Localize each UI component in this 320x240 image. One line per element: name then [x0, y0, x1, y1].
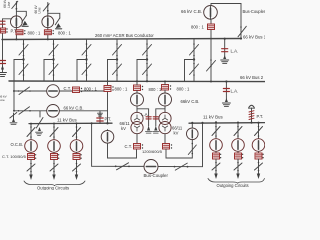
circuit breaker CB incoming 2 — [42, 16, 54, 28]
label 66/11 kV (right) — [172, 126, 183, 136]
transformer T1 66/11 kV — [131, 112, 143, 143]
svg-text:L.A.: L.A. — [231, 48, 239, 53]
bus link bay 4 — [108, 39, 122, 81]
svg-text:66 kV Bus 2: 66 kV Bus 2 — [240, 75, 264, 80]
label 1200/600/5 — [142, 149, 163, 154]
svg-text:P.T.: P.T. — [257, 114, 264, 119]
circuit breaker 11 kV (left transformer) — [101, 130, 114, 144]
svg-text:11 kV Bus: 11 kV Bus — [203, 114, 223, 119]
svg-text:800 : 1: 800 : 1 — [177, 86, 190, 91]
svg-text:11 kV Bus: 11 kV Bus — [57, 117, 77, 122]
CT 800:1 incoming 1 — [16, 30, 25, 35]
lightning arrester pair between transformers — [137, 109, 165, 133]
transformer T2 66/11 kV — [159, 112, 171, 143]
svg-text:kV: kV — [174, 130, 179, 135]
circuit breaker (transformer 2 primary) — [159, 93, 172, 106]
label 66 kV C.B. (run2) — [64, 106, 84, 111]
wire transformer1 secondary loop — [108, 143, 137, 158]
svg-text:800 : 1: 800 : 1 — [191, 25, 204, 30]
svg-text:C.T.: C.T. — [64, 86, 71, 91]
svg-text:800 : 1: 800 : 1 — [84, 87, 97, 92]
svg-text:C.T.: C.T. — [125, 144, 132, 149]
bus link bay 5 — [137, 39, 152, 82]
label 66/11 kV (left) — [120, 121, 131, 131]
label P.T. (mid) — [105, 117, 112, 122]
circuit breaker 66 kV C.B. (bus coupler) — [204, 6, 218, 20]
label incoming line 2 (vertical) — [34, 4, 42, 13]
wire run 2 (66 kV transformer feed 2) — [14, 107, 108, 115]
junction dots on 11 kV left bus — [30, 122, 93, 124]
potential transformer P.T. right (on 11 kV bus) — [249, 105, 255, 122]
svg-text:66 kV Bus 1: 66 kV Bus 1 — [243, 35, 265, 40]
svg-text:O.C.B.: O.C.B. — [11, 142, 24, 147]
svg-text:Line: Line — [7, 2, 11, 8]
label C.T. 100/50/5 — [2, 154, 27, 159]
label 800:1 (incoming 1 CT ratio) — [28, 30, 41, 35]
label 66 kV left edge (vertical) — [0, 95, 7, 103]
circuit breaker on run 1 — [47, 85, 60, 98]
potential transformer P.T. mid — [97, 111, 103, 124]
CT 800:1 (66 kV coupler) — [208, 24, 215, 30]
circuit breaker CB incoming 1 — [11, 16, 23, 28]
bus link bay 1 (isolators bus1-bus2) — [14, 39, 28, 81]
outgoing feeder L3 — [70, 123, 83, 180]
isolator left on 11 kV coupler run — [115, 163, 130, 170]
lightning arrester + PT column top-left — [0, 19, 12, 77]
label C.T. (t1 secondary) — [125, 144, 132, 149]
svg-text:P.T.: P.T. — [11, 29, 18, 34]
CT box on run 1 — [73, 87, 83, 93]
junction dots on bus2 — [136, 80, 212, 82]
svg-text:Outgoing Circuits: Outgoing Circuits — [217, 183, 249, 188]
earthing switch below run2 — [36, 111, 44, 136]
svg-text:Line: Line — [37, 7, 41, 13]
outgoing feeder R1 — [210, 121, 223, 179]
label Bus-Coupler (bottom) — [144, 173, 169, 178]
label 800:1 (mid column CT ratio) — [115, 87, 128, 92]
svg-text:kV: kV — [121, 126, 126, 131]
label Outgoing Circuits (right) — [217, 183, 249, 188]
label 800:1 (incoming 2 CT ratio) — [58, 30, 71, 35]
label 66 kV C.B. (coupler) — [181, 9, 202, 14]
brace left outgoing — [24, 181, 85, 186]
bus 66 kV Bus 1 — [2, 39, 241, 40]
mid column x=107.5 (bus2 to 11kV bus) — [106, 81, 108, 125]
label 66 kV C.B. (chain2) — [181, 99, 200, 104]
bus 11 kV Bus left section — [29, 122, 112, 124]
svg-text:800 : 1: 800 : 1 — [149, 87, 162, 92]
outgoing feeder L2 — [48, 124, 61, 181]
svg-text:L.A.: L.A. — [231, 89, 239, 94]
junction dots incoming to bus1 — [15, 38, 48, 40]
svg-text:66 kV C.B.: 66 kV C.B. — [181, 9, 202, 14]
transformer chain 1 wires — [136, 81, 138, 112]
bus link bay 2 — [44, 39, 58, 81]
circuit breaker bus coupler 11 kV — [144, 160, 158, 174]
svg-text:800 : 1: 800 : 1 — [115, 87, 128, 92]
label 11 kV Bus (left) — [57, 117, 77, 122]
label 800:1 (66 kV coupler CT ratio) — [191, 25, 204, 30]
lightning arrester L.A. on bus 2 right — [222, 80, 230, 106]
bus 66 kV Bus 2 — [9, 80, 265, 83]
label 11 kV Bus (right) — [203, 114, 223, 119]
label P.T. (top left) — [11, 29, 18, 34]
label 66 kV Bus 1 — [243, 35, 267, 40]
bus 11 kV Bus right section — [189, 122, 265, 125]
transformer chain 1: CT box — [134, 85, 144, 91]
svg-text:Line: Line — [0, 98, 5, 102]
label 800:1 (transformer 1 CT ratio) — [149, 87, 162, 92]
66 kV bus coupler (top right) — [207, 4, 247, 82]
CT box on mid column — [104, 86, 114, 92]
bus link bay 6 — [185, 39, 199, 82]
transformer chain 2: CT box — [162, 85, 172, 91]
svg-text:L.A.: L.A. — [141, 112, 148, 117]
label C.T. (run1) — [64, 86, 71, 91]
outgoing feeder R3 — [252, 122, 265, 179]
CT 800:1 incoming 2 — [44, 30, 54, 35]
label L.A. (bus1 arrester) — [231, 48, 239, 53]
svg-text:800 : 1: 800 : 1 — [58, 30, 71, 35]
incoming line 2 (66 kV) — [43, 3, 49, 40]
svg-text:66kV C.B.: 66kV C.B. — [181, 99, 200, 104]
outgoing feeder R2 — [232, 122, 245, 180]
svg-text:C.T. 100/50/5: C.T. 100/50/5 — [2, 154, 27, 159]
transformer chain 2 wires — [164, 81, 166, 112]
incoming line 1 (66 kV) — [12, 1, 18, 39]
earthing switch on left rail — [10, 113, 17, 125]
CT box transformer2 secondary — [163, 144, 173, 150]
bus link bay 3 — [77, 39, 91, 81]
svg-text:1200/600/5: 1200/600/5 — [142, 149, 163, 154]
svg-text:66 kV C.B.: 66 kV C.B. — [64, 106, 84, 111]
label L.A. (bus2 arrester) — [231, 89, 239, 94]
label 800:1 (transformer 2 CT ratio) — [177, 86, 190, 91]
circuit breaker (transformer 1 primary) — [131, 93, 144, 106]
label 800:1 (run1 CT ratio) — [84, 87, 97, 92]
circuit breaker 11 kV (right transformer) — [187, 122, 199, 140]
svg-text:800 : 1: 800 : 1 — [28, 30, 41, 35]
label Outgoing Circuits (left) — [37, 185, 69, 190]
earthing switch incoming 1 — [16, 11, 28, 26]
circuit breaker 66 kV C.B. on run 2 — [47, 105, 60, 118]
outgoing feeder L1 — [25, 124, 38, 180]
svg-text:Bus-Coupler: Bus-Coupler — [144, 173, 169, 178]
label P.T. (right) — [257, 114, 264, 119]
brace right outgoing — [208, 179, 265, 184]
junction dots on 11 kV right bus — [201, 122, 252, 125]
wire run 1 (66 kV transformer feed 1) — [14, 87, 108, 95]
svg-text:Outgoing Circuits: Outgoing Circuits — [37, 185, 69, 190]
earthing switch incoming 2 — [48, 13, 62, 28]
lightning arrester L.A. on bus 1 right — [221, 38, 229, 64]
svg-text:Bus-Coupler: Bus-Coupler — [243, 9, 266, 14]
label Bus-Coupler (top right) — [243, 9, 266, 14]
label 260 mm2 ACSR Bus Conductor — [95, 33, 154, 38]
label 66 kV Bus 2 — [240, 75, 264, 80]
CT box transformer1 secondary — [134, 144, 144, 150]
wire transformer2 secondary loop — [166, 140, 192, 158]
left rail below bus2 — [13, 81, 15, 112]
isolator below 11 kV C.B. right — [188, 143, 196, 155]
svg-text:260 mm² ACSR Bus Conductor: 260 mm² ACSR Bus Conductor — [95, 33, 154, 38]
label O.C.B. — [11, 142, 24, 147]
wire bus-coupler run (11 kV) — [92, 123, 203, 167]
label incoming line 1 (vertical) — [3, 0, 11, 8]
isolator right on 11 kV coupler run — [174, 163, 189, 170]
label L.A. mid — [141, 112, 148, 117]
